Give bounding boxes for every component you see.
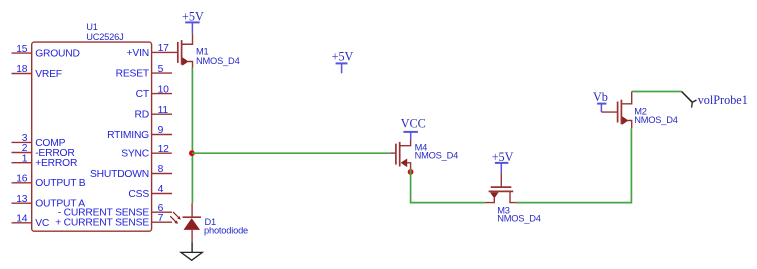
node junction dot at SYNC net [189,150,195,156]
transistor M3 NMOS_D4 [485,173,516,202]
svg-text:+ CURRENT SENSE: + CURRENT SENSE [55,218,149,229]
svg-text:RTIMING: RTIMING [107,130,149,141]
svg-text:VCC: VCC [401,117,426,131]
node junction dot at M4 source [408,169,414,175]
svg-text:1: 1 [22,153,28,164]
pin 11 RD [135,105,172,121]
svg-text:SHUTDOWN: SHUTDOWN [90,169,149,180]
svg-text:volProbe1: volProbe1 [698,93,748,107]
ground symbol [181,252,202,260]
svg-text:M1: M1 [196,47,209,57]
probe volProbe1 [682,92,697,108]
svg-text:+ERROR: +ERROR [35,158,77,169]
svg-text:Vb: Vb [593,90,608,104]
pin 6 - CURRENT SENSE [58,203,172,219]
photodiode D1 [170,203,201,242]
svg-text:VC: VC [35,218,50,229]
svg-text:NMOS_D4: NMOS_D4 [497,213,541,223]
svg-text:NMOS_D4: NMOS_D4 [196,56,240,66]
+5V supply symbol at M3 [492,150,514,174]
wire D1 anode to ground [191,243,193,253]
svg-text:+VIN: +VIN [127,48,149,59]
pin 10 CT [136,84,172,100]
transistor M4 NMOS_D4 [390,140,410,169]
transistor M2 NMOS_D4 [618,92,632,129]
svg-text:+5V: +5V [492,150,514,164]
svg-text:NMOS_D4: NMOS_D4 [634,115,678,125]
pin 12 SYNC [121,144,172,160]
svg-text:12: 12 [158,144,170,155]
svg-text:CT: CT [136,89,150,100]
svg-text:8: 8 [158,164,164,175]
svg-text:7: 7 [158,213,164,224]
pin 8 SHUTDOWN [90,164,172,180]
pin 16 OUTPUT B [12,174,86,190]
pin 4 CSS [128,184,172,200]
svg-text:15: 15 [16,44,28,55]
pin 7 + CURRENT SENSE [55,213,172,229]
VCC supply symbol at M4 [401,117,426,140]
svg-text:CSS: CSS [128,189,149,200]
svg-text:10: 10 [158,84,170,95]
svg-text:OUTPUT B: OUTPUT B [35,178,86,189]
pin 13 OUTPUT A [12,194,86,210]
pin 14 VC [12,214,50,230]
wire M3 drain to M2 source (green) [516,128,631,202]
wire M4 source down and to M3 (green) [411,169,486,203]
pin 2 -ERROR [12,143,75,159]
svg-text:11: 11 [158,105,169,116]
wire Vb to M2 gate [601,111,617,113]
IC U1 body [32,42,152,231]
svg-text:9: 9 [158,125,164,136]
pin 18 VREF [12,64,62,80]
svg-text:18: 18 [16,64,28,75]
svg-text:17: 17 [158,43,170,54]
svg-text:4: 4 [158,184,164,195]
svg-text:VREF: VREF [35,69,62,80]
wire SYNC node to M4 gate (green horizontal) [192,152,390,154]
svg-text:U1: U1 [86,22,98,32]
pin 17 +VIN [127,43,178,59]
svg-text:NMOS_D4: NMOS_D4 [415,151,459,161]
svg-text:5: 5 [158,64,164,75]
floating +5V supply symbol [332,50,354,74]
svg-text:RD: RD [135,110,149,121]
svg-text:GROUND: GROUND [35,49,80,60]
+5V supply symbol at M1 [182,9,204,33]
pin 15 GROUND [12,44,80,60]
svg-text:16: 16 [16,174,28,185]
svg-text:13: 13 [16,194,28,205]
wire M2 drain to probe (green) [632,91,682,93]
pin 5 RESET [116,64,172,80]
wire M1 source to SYNC node and photodiode (green vertical) [191,68,193,204]
svg-text:UC2526J: UC2526J [86,32,123,42]
Vb supply symbol at M2 [593,90,608,112]
svg-text:+5V: +5V [182,9,204,23]
pin 9 RTIMING [107,125,172,141]
svg-text:photodiode: photodiode [204,226,248,236]
pin 3 COMP [12,133,66,149]
svg-text:RESET: RESET [116,69,150,80]
transistor M1 NMOS_D4 [178,33,193,67]
pin 1 +ERROR [12,153,78,169]
svg-text:SYNC: SYNC [121,149,150,160]
svg-text:+5V: +5V [332,50,354,64]
svg-text:14: 14 [16,214,28,225]
